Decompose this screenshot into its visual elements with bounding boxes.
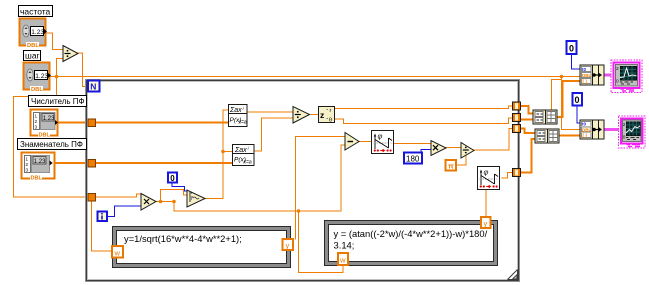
- wire i to multiply input: [106, 206, 141, 217]
- svg-text:π: π: [448, 162, 454, 171]
- svg-text:1: 1: [35, 114, 38, 119]
- node junction w split: [297, 209, 301, 213]
- svg-text:0: 0: [569, 44, 574, 54]
- svg-text:1.23: 1.23: [34, 159, 46, 165]
- wire build array 1 to bundle1 Y: [557, 81, 580, 117]
- build array node 2: [535, 129, 559, 143]
- numeric control частота: [20, 19, 48, 50]
- svg-text:0: 0: [616, 79, 619, 85]
- svg-text:0: 0: [623, 135, 626, 141]
- tunnel C magnitude formula output: [513, 125, 521, 133]
- svg-text:x=a: x=a: [243, 160, 252, 166]
- svg-text:0: 0: [170, 174, 175, 183]
- tunnel D phase formula output: [513, 169, 521, 177]
- svg-text:t0: t0: [582, 67, 586, 72]
- wire tunnel B to build array 1 row2: [520, 119, 533, 121]
- op re-im to complex: [187, 190, 205, 207]
- svg-text:1.23: 1.23: [43, 116, 55, 122]
- wire знаменатель to tunnel2: [56, 162, 89, 164]
- formula node 1 frame: [113, 227, 291, 268]
- wire шаг long horizontal to bundle dt: [57, 76, 581, 78]
- wire tunnel2 to poly2 coeff input: [94, 162, 232, 164]
- svg-text:DBL: DBL: [582, 73, 591, 78]
- tunnel A r output: [513, 102, 521, 110]
- svg-text:2: 2: [35, 119, 38, 124]
- wire tunnel C to build array 2 row1: [520, 129, 535, 134]
- tunnel знаменатель: [88, 160, 96, 168]
- wire bundle2 to graph2 cluster: [604, 128, 619, 131]
- wire phase2 to tunnel D: [502, 173, 513, 179]
- node junction multiply out 2: [172, 200, 176, 204]
- svg-text:DBL: DBL: [31, 175, 43, 181]
- tunnel шаг: [88, 194, 96, 202]
- svg-text:r: r: [330, 108, 332, 114]
- svg-text:2: 2: [616, 66, 619, 72]
- node junction poly x split: [221, 150, 225, 154]
- wire multiply2 to divide3: [446, 147, 461, 149]
- wire w long horizontal: [174, 202, 299, 212]
- tunnel B theta output: [513, 114, 521, 122]
- wire poly1 output to divide2: [247, 111, 293, 113]
- constant 180: [404, 153, 422, 164]
- wire subtract to phase1: [359, 141, 371, 143]
- label частота: [19, 6, 53, 17]
- wire pi to divide3: [456, 155, 466, 165]
- for loop border: [86, 80, 520, 282]
- label Числитель ПФ: [29, 96, 87, 107]
- bundle build waveform 1: [580, 65, 604, 85]
- node junction bundle dt split: [560, 75, 564, 79]
- svg-text:w: w: [339, 256, 346, 265]
- numeric control шаг: [24, 63, 52, 94]
- op divide3 by pi: [461, 143, 474, 159]
- constant pi: [446, 160, 457, 171]
- wire w to subtract bottom input: [299, 145, 346, 211]
- svg-text:Σaxⁱ: Σaxⁱ: [229, 106, 245, 114]
- svg-text:y = (atan((-2*w)/(-4*w**2+1))-: y = (atan((-2*w)/(-4*w**2+1))-w)*180/: [334, 228, 488, 239]
- svg-text:шаг: шаг: [25, 51, 40, 61]
- formula node 2 frame: [325, 221, 498, 266]
- constant 0 t0 second: [573, 93, 583, 106]
- svg-text:Знаменатель ПФ: Знаменатель ПФ: [20, 140, 83, 149]
- wire z theta output to tunnel B: [335, 118, 513, 124]
- formula node 2 output y: [481, 217, 491, 228]
- formula node 1 input w: [112, 246, 123, 258]
- node junction multiply out 1: [159, 200, 163, 204]
- wire bundle1 to graph1 cluster: [604, 74, 612, 77]
- for loop fold corner: [508, 270, 518, 280]
- svg-text:1.23: 1.23: [31, 29, 44, 36]
- wire multiply output: [156, 201, 174, 203]
- formula node 2 input w: [338, 253, 348, 265]
- tunnel числитель: [88, 119, 96, 127]
- wire tunnel3 branch down to formula1 w: [92, 200, 114, 251]
- array control Числитель ПФ: [31, 110, 59, 139]
- svg-text:Σaxⁱ: Σaxⁱ: [234, 146, 250, 154]
- wire частота to divide: [46, 33, 63, 50]
- wire poly2 output to divide2: [254, 118, 293, 151]
- label шаг: [24, 51, 41, 61]
- loop count terminal N: [88, 81, 100, 92]
- svg-text:x=a: x=a: [238, 120, 247, 126]
- phase unwrap node 1: [372, 131, 394, 154]
- bundle build waveform 2: [580, 120, 604, 139]
- svg-text:N: N: [90, 82, 96, 92]
- formula node 1 output y: [283, 239, 294, 250]
- op multiply w=i*шаг: [141, 194, 156, 211]
- svg-text:[ ]: [ ]: [583, 79, 588, 84]
- wire blue 0 to bundle2 t0: [577, 105, 580, 123]
- svg-text:[ ]: [ ]: [583, 133, 588, 138]
- wire junction to poly2 x input: [223, 151, 232, 153]
- svg-text:0: 0: [575, 95, 580, 105]
- wire multiply out up-over to complex re input: [161, 190, 188, 202]
- wire formula1 y up to subtract top input: [296, 137, 346, 240]
- op multiply2 x180: [431, 141, 446, 156]
- svg-text:2: 2: [623, 122, 626, 128]
- op complex to polar z node: [319, 107, 335, 124]
- svg-text:w: w: [114, 249, 121, 258]
- wire build array 2 to bundle2 Y: [559, 135, 580, 137]
- wire phase1 to multiply2: [394, 143, 431, 145]
- wire divide3 to tunnel C: [474, 129, 513, 151]
- svg-text:y: y: [484, 219, 488, 228]
- wire divide2 to z node: [311, 114, 318, 116]
- build array node 1: [533, 110, 557, 124]
- wire 0 constant to complex im input: [172, 182, 187, 191]
- svg-text:DBL: DBL: [39, 132, 51, 138]
- op divide1 частота/шаг: [63, 46, 78, 62]
- wire stub into build array 1 top: [552, 80, 562, 111]
- svg-text:3.14;: 3.14;: [334, 240, 355, 251]
- phase unwrap node 2: [478, 167, 500, 190]
- op divide2 num/den: [293, 107, 310, 124]
- wire tunnel3 to multiply input: [94, 194, 142, 197]
- wire junction up to divide bottom input: [57, 59, 64, 77]
- waveform graph terminal 2: [619, 116, 646, 148]
- svg-text:y: y: [286, 241, 290, 250]
- label Знаменатель ПФ: [18, 139, 87, 150]
- svg-text:z: z: [320, 110, 324, 120]
- wire dt split down to bundle2: [562, 77, 581, 130]
- svg-text:DBL: DBL: [31, 87, 43, 93]
- svg-text:1: 1: [26, 157, 29, 162]
- array control Знаменатель ПФ: [22, 153, 55, 182]
- svg-text:y=1/sqrt(16*w**4-4*w**2+1);: y=1/sqrt(16*w**4-4*w**2+1);: [124, 233, 242, 244]
- wire complex output to poly x inputs: [205, 110, 228, 199]
- svg-text:θ: θ: [329, 118, 332, 124]
- constant 0 imaginary: [168, 173, 177, 183]
- wire числитель to tunnel1: [58, 122, 89, 124]
- svg-text:Числитель ПФ: Числитель ПФ: [31, 97, 85, 106]
- wire formula2 y to phase2: [485, 190, 487, 217]
- wire blue 0 to bundle1 t0: [572, 54, 581, 69]
- polynomial evaluation node 2: [232, 145, 254, 166]
- wire divide1 to N: [78, 53, 88, 87]
- iteration terminal i: [98, 212, 108, 222]
- node junction шаг: [55, 75, 59, 79]
- polynomial evaluation node 1: [228, 105, 247, 127]
- svg-text:частота: частота: [20, 7, 51, 17]
- svg-text:3: 3: [35, 125, 38, 130]
- svg-text:t0: t0: [582, 122, 586, 127]
- svg-text:DBL: DBL: [27, 43, 39, 49]
- wire tunnel A to build array 1 row1: [520, 106, 533, 114]
- svg-text:180: 180: [406, 155, 420, 164]
- wire шаг down left side to tunnel3: [14, 77, 89, 198]
- wire 180 to multiply2: [421, 150, 431, 154]
- wire шаг to junction: [50, 76, 57, 78]
- wire z r output to tunnel A: [335, 106, 513, 109]
- wire tunnel D to build array 2 row2: [520, 139, 535, 173]
- svg-text:1.23: 1.23: [35, 73, 48, 80]
- svg-text:2: 2: [26, 162, 29, 167]
- wire tunnel1 to poly1 coeff input: [94, 122, 228, 124]
- svg-text:DBL: DBL: [582, 127, 591, 132]
- constant 0 t0 first: [567, 41, 577, 54]
- op subtract theta-w: [345, 133, 359, 151]
- waveform graph terminal 1: [611, 60, 642, 93]
- wire w down to formula2 w: [299, 211, 344, 273]
- svg-text:3: 3: [26, 168, 29, 173]
